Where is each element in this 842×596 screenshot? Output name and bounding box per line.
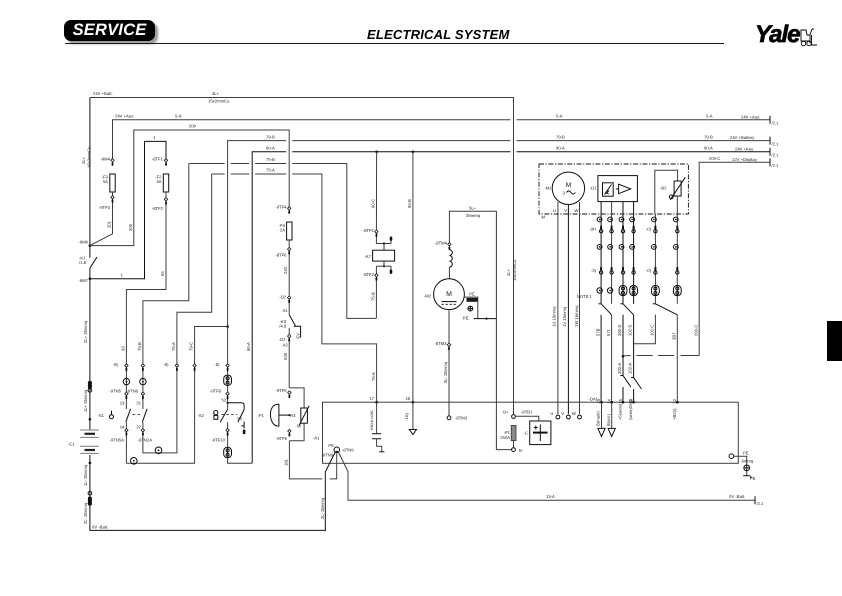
splice marker -8TM4	[448, 243, 451, 246]
wire M2 to controller 3L-	[448, 310, 450, 416]
svg-text:-B2: -B2	[660, 186, 667, 191]
svg-text:12V +Display: 12V +Display	[732, 157, 758, 162]
svg-text:W: W	[297, 424, 301, 429]
connector pair S2 upper	[224, 375, 232, 385]
svg-text:14: 14	[606, 398, 611, 403]
svg-text:U: U	[550, 411, 553, 416]
micro contactor 75-A stub	[376, 402, 378, 433]
svg-text:24V +Batt.: 24V +Batt.	[93, 91, 113, 96]
motor M1 leads	[557, 202, 559, 414]
svg-text:-6M7: -6M7	[78, 278, 88, 283]
svg-text:1W 16mmq: 1W 16mmq	[574, 305, 579, 327]
svg-text:M: M	[542, 215, 546, 220]
junction dot 79-B branch	[226, 325, 229, 328]
svg-text:90-A: 90-A	[266, 146, 275, 151]
splice marker b	[141, 392, 144, 395]
splice marker -8TF1	[164, 159, 167, 162]
svg-text:6mmq: 6mmq	[467, 299, 476, 303]
svg-text:2L- 35mmq: 2L- 35mmq	[83, 502, 88, 524]
inductor choke	[449, 250, 452, 267]
splice marker a	[125, 392, 128, 395]
svg-text:54: 54	[237, 416, 242, 421]
svg-text:3: 3	[563, 191, 566, 196]
svg-text:/2.1: /2.1	[772, 163, 780, 168]
terminal circle B-	[513, 441, 515, 448]
fuse F4 2A	[287, 222, 292, 240]
svg-text:-8): -8)	[113, 362, 119, 367]
svg-text:21: 21	[136, 401, 141, 406]
svg-text:200-S: 200-S	[617, 325, 622, 336]
connector pin row4 col4	[633, 267, 635, 270]
wire 90-A bus 24V +Key	[252, 152, 286, 464]
svg-text:/2.1: /2.1	[757, 501, 765, 506]
wire choke to M2	[448, 267, 450, 279]
wire 90-B to K7	[376, 152, 391, 244]
splice marker S2col	[226, 364, 229, 367]
svg-text:W: W	[575, 208, 579, 213]
controller D1	[598, 176, 638, 202]
motor M1	[552, 172, 584, 204]
black side tab	[827, 321, 842, 362]
svg-text:-8): -8)	[163, 362, 169, 367]
svg-text:18: 18	[405, 396, 410, 401]
wire below K1	[89, 268, 91, 430]
connector circle row1 col6	[673, 217, 678, 222]
wire P1 junction	[288, 414, 290, 416]
svg-text:NOTE 1: NOTE 1	[577, 294, 593, 299]
connector circle row1 col1	[597, 217, 602, 222]
connector pair row5 col6	[673, 286, 681, 296]
svg-text:-P1: -P1	[257, 413, 264, 418]
svg-text:5-A: 5-A	[175, 113, 182, 118]
svg-text:4L+: 4L+	[506, 268, 511, 276]
svg-text:-8): -8)	[214, 362, 220, 367]
splice marker -9TN2A	[141, 429, 144, 432]
svg-text:0V -Batt.: 0V -Batt.	[92, 525, 108, 530]
wire node 1	[90, 141, 166, 278]
wire 79-B bus 24V +Battery	[228, 141, 287, 327]
switch contact pair cols5-6	[653, 303, 656, 305]
svg-text:13-A: 13-A	[546, 494, 555, 499]
svg-text:90-C: 90-C	[370, 199, 375, 208]
svg-text:79-B: 79-B	[704, 134, 713, 139]
svg-text:-9TN5A: -9TN5A	[110, 438, 125, 443]
splice marker -8TF2	[164, 198, 167, 201]
svg-text:PE: PE	[328, 443, 334, 448]
svg-text:/2.1: /2.1	[772, 141, 780, 146]
svg-text:57B: 57B	[595, 328, 600, 336]
wire 4L+ bus 24V +Batt.	[90, 98, 514, 415]
traction motor unit dashed box	[539, 164, 688, 214]
splice marker -9TF5	[288, 391, 291, 394]
wire 200-S / 200-A	[622, 315, 624, 376]
svg-text:/2.1: /2.1	[772, 121, 780, 126]
terminal circle PE box right	[729, 454, 734, 459]
svg-text:1L+ 35mmq: 1L+ 35mmq	[83, 389, 88, 412]
svg-text:-D2: -D2	[279, 337, 286, 342]
svg-text:1L- 35mmq: 1L- 35mmq	[83, 464, 88, 486]
svg-text:17: 17	[369, 396, 374, 401]
svg-text:-3): -3)	[591, 268, 597, 273]
svg-text:B-: B-	[519, 448, 524, 453]
svg-text:-C1: -C1	[68, 442, 75, 447]
svg-text:528: 528	[283, 352, 288, 360]
svg-text:200-C: 200-C	[709, 156, 720, 161]
svg-text:-D2: -D2	[279, 295, 286, 300]
svg-text:75-B: 75-B	[370, 292, 375, 301]
svg-text:-9TF3: -9TF3	[99, 205, 111, 210]
splice marker -9TF6	[288, 429, 291, 432]
junction battery bottom	[89, 462, 92, 465]
svg-text:15: 15	[618, 398, 623, 403]
junction node 6M7	[89, 277, 92, 280]
svg-text:-9TN9: -9TN9	[321, 452, 333, 457]
wire 2L- to battery	[325, 452, 335, 530]
S2 contact blade 2	[238, 410, 244, 423]
wire battery minus	[90, 455, 326, 530]
motor M2	[434, 279, 465, 310]
svg-text:PE: PE	[750, 476, 756, 481]
svg-text:-8TF2: -8TF2	[363, 272, 375, 277]
svg-text:4L+: 4L+	[212, 91, 220, 96]
svg-text:-0): -0)	[646, 227, 652, 232]
wire F2 down staircase 65/33	[126, 192, 166, 409]
connector pair row5 col3	[619, 286, 627, 296]
svg-text:200-A: 200-A	[617, 363, 622, 374]
svg-text:5-A: 5-A	[706, 113, 713, 118]
svg-text:-M1: -M1	[544, 186, 552, 191]
svg-text:-9TF4: -9TF4	[275, 205, 287, 210]
svg-text:-9TF8: -9TF8	[210, 388, 222, 393]
svg-text:200-C: 200-C	[693, 325, 698, 336]
connector pin row4 col6	[676, 267, 678, 270]
svg-text:U: U	[553, 208, 556, 213]
svg-text:65: 65	[160, 271, 165, 276]
connector circle row3 col1	[597, 245, 602, 250]
svg-text:4L+: 4L+	[81, 156, 86, 164]
S2 contact blade 1	[220, 410, 227, 423]
svg-text:5L+: 5L+	[469, 205, 477, 210]
splice marker col75B	[141, 364, 144, 367]
connector pair S2 lower	[224, 447, 232, 457]
wire 75-B bus	[189, 163, 225, 165]
plug arrow 57B	[601, 402, 603, 428]
splice marker -9TN5A	[125, 429, 128, 432]
wire 57B	[600, 315, 602, 402]
splice marker s2	[226, 392, 229, 395]
contactor K1 main contact	[90, 257, 97, 268]
svg-text:5A: 5A	[103, 179, 108, 184]
svg-text:-6M6: -6M6	[78, 240, 88, 245]
wire F3 to 6M6	[90, 192, 113, 246]
fuse link battery plus	[88, 381, 92, 389]
svg-text:-8TF1: -8TF1	[363, 228, 375, 233]
splice marker -9TF3	[111, 196, 114, 199]
Yale forklift icon	[798, 27, 818, 49]
fuse F3 5A	[110, 174, 115, 192]
svg-text:/4.8: /4.8	[279, 324, 287, 329]
wire S1 lower	[125, 422, 127, 463]
wire 200 bus	[90, 130, 289, 246]
connector pin row2 col3	[622, 226, 624, 229]
splice marker col33	[125, 364, 128, 367]
connector pin row2 col6	[676, 226, 678, 229]
svg-text:24V +Battery: 24V +Battery	[730, 135, 755, 140]
svg-text:-8TF6: -8TF6	[275, 253, 287, 258]
splice marker -8TF10	[226, 429, 229, 432]
switch contact pair cols1-2	[599, 303, 602, 305]
svg-text:3L- 35mmq: 3L- 35mmq	[443, 361, 448, 383]
svg-text:R3: R3	[290, 413, 296, 418]
svg-text:-8TF1: -8TF1	[152, 157, 164, 162]
thermistor B2 frame	[655, 170, 678, 214]
svg-text:90-B: 90-B	[407, 199, 412, 208]
wire 5-A bus 24V +Aux.	[113, 120, 511, 162]
splice marker -8TF6	[288, 247, 291, 250]
wire 3B7	[676, 315, 678, 402]
junction node 6M6	[89, 244, 92, 247]
svg-text:-S1: -S1	[97, 413, 104, 418]
svg-text:-3H: -3H	[589, 227, 596, 232]
svg-text:200: 200	[128, 223, 133, 231]
wire battery positive main line	[89, 98, 91, 258]
svg-text:M: M	[446, 291, 452, 298]
svg-text:15x2mmCu: 15x2mmCu	[512, 259, 517, 281]
svg-text:micro cont.: micro cont.	[369, 410, 374, 430]
svg-text:2L- 35mmq: 2L- 35mmq	[320, 497, 325, 519]
solenoid EV bracket	[294, 326, 301, 337]
sheet ref 200-C /2.1	[769, 158, 771, 166]
connector circle row1 col3	[619, 217, 624, 222]
svg-text:102-A: 102-A	[628, 363, 633, 374]
splice marker -9M4	[111, 159, 114, 162]
connector pin row2 col5	[654, 226, 656, 229]
svg-text:A1: A1	[283, 308, 289, 313]
svg-text:201: 201	[107, 220, 112, 228]
svg-text:90-A: 90-A	[704, 146, 713, 151]
wire D1 pins down	[600, 202, 602, 304]
svg-text:33: 33	[120, 346, 125, 351]
variable resistor R3 loop	[289, 388, 304, 408]
svg-text:-D1: -D1	[590, 186, 597, 191]
svg-text:-8TB1: -8TB1	[521, 410, 533, 415]
svg-text:V: V	[564, 208, 567, 213]
terminal circle B+	[512, 415, 516, 419]
connector circle row5 col1	[597, 288, 602, 293]
svg-text:75-A: 75-A	[266, 168, 275, 173]
svg-text:B+: B+	[503, 410, 509, 415]
svg-text:75-A: 75-A	[371, 372, 376, 381]
svg-text:181: 181	[283, 458, 288, 466]
svg-text:M: M	[566, 182, 571, 189]
svg-text:24V +Aux.: 24V +Aux.	[115, 113, 134, 118]
earth symbol box right	[744, 465, 750, 471]
svg-text:12: 12	[672, 398, 677, 403]
connector circle row3 col6	[673, 245, 678, 250]
connector circle row3 col2	[608, 245, 613, 250]
header rule	[65, 43, 724, 45]
connector pin row4 col5	[654, 267, 656, 270]
svg-text:3A: 3A	[156, 179, 161, 184]
connector pair row5 col4	[630, 286, 638, 296]
svg-text:-9TN2A: -9TN2A	[138, 438, 153, 443]
connector circle row1 col2	[608, 217, 613, 222]
svg-text:1: 1	[153, 135, 156, 140]
svg-text:-8TM3: -8TM3	[434, 341, 447, 346]
svg-text:-9TN5: -9TN5	[109, 388, 121, 393]
terminal circle M2	[447, 416, 451, 420]
connector circle row3 col3	[619, 245, 624, 250]
svg-text:75-B: 75-B	[137, 342, 142, 351]
svg-text:35mmq: 35mmq	[466, 213, 481, 218]
wire 13-A 0V	[338, 452, 755, 500]
svg-text:-9TF6: -9TF6	[276, 436, 288, 441]
svg-text:V: V	[561, 411, 564, 416]
wire 571	[611, 315, 613, 402]
thermistor B2	[674, 181, 681, 196]
svg-text:B(sol.): B(sol.)	[606, 413, 611, 426]
sheet ref 90-A /2.1	[769, 148, 771, 156]
plug arrow 90-C	[412, 402, 414, 429]
fuse F2 3A	[163, 174, 168, 192]
connector pin row4 col1	[600, 267, 602, 270]
header title	[367, 27, 510, 42]
svg-text:-K7: -K7	[364, 254, 371, 259]
svg-text:1V 16mmq: 1V 16mmq	[562, 306, 567, 327]
svg-text:571: 571	[606, 328, 611, 336]
svg-text:-9TF10: -9TF10	[212, 438, 226, 443]
Yale logo	[755, 21, 799, 49]
svg-text:1: 1	[121, 272, 124, 277]
svg-text:-S2: -S2	[197, 413, 204, 418]
svg-text:3B7: 3B7	[671, 332, 676, 340]
splice marker -8TF1k	[375, 230, 378, 233]
svg-text:(sens)GND: (sens)GND	[628, 399, 633, 420]
D1 amp glyph	[619, 184, 631, 194]
junction dot 90-A to 90-B	[375, 151, 378, 154]
svg-text:79-C: 79-C	[189, 342, 194, 351]
svg-text:+5(sens): +5(sens)	[617, 403, 622, 420]
splice marker col75A	[175, 364, 178, 367]
switch contact 200	[620, 375, 623, 377]
svg-text:-1A): -1A)	[404, 412, 409, 421]
connector circle 75-B	[140, 378, 146, 384]
svg-text:PE: PE	[463, 316, 469, 321]
svg-text:-8TM3: -8TM3	[455, 416, 468, 421]
svg-text:1U 16mmq: 1U 16mmq	[552, 306, 557, 327]
connector pin row2 col2	[611, 226, 613, 229]
svg-text:79-B: 79-B	[556, 134, 565, 139]
connector circle node 8	[155, 447, 162, 454]
svg-text:13: 13	[120, 401, 125, 406]
svg-text:24V +Aux.: 24V +Aux.	[741, 114, 760, 119]
svg-text:79-B: 79-B	[266, 134, 275, 139]
svg-text:15x2mmCu: 15x2mmCu	[208, 99, 230, 104]
splice marker -8TM3	[447, 343, 450, 346]
svg-text:-9TN6: -9TN6	[126, 388, 138, 393]
svg-text:75-B: 75-B	[266, 157, 275, 162]
connector pin row4 col2	[611, 267, 613, 270]
earth wire box right	[734, 456, 747, 465]
svg-text:5-A: 5-A	[556, 113, 563, 118]
svg-text:22: 22	[136, 425, 141, 430]
svg-text:PE: PE	[469, 291, 475, 296]
svg-text:90-A: 90-A	[556, 146, 565, 151]
sheet ref 79-B /2.1	[769, 137, 771, 145]
svg-text:6mmq: 6mmq	[742, 459, 754, 464]
capacitor box C	[530, 421, 551, 445]
switch contact pair cols3-4	[620, 303, 623, 305]
svg-text:+B2(t): +B2(t)	[672, 408, 677, 420]
connector circle row5 col2	[607, 288, 612, 293]
svg-text:B(main): B(main)	[596, 411, 601, 426]
wire B+ to capacitor	[516, 416, 539, 421]
svg-text:15x2mmCu: 15x2mmCu	[87, 146, 92, 168]
terminal circles U V W	[556, 415, 560, 419]
switch contact 102	[631, 377, 634, 379]
svg-text:EV: EV	[295, 333, 300, 339]
wire 90-C down	[412, 152, 414, 402]
junction dot 200	[622, 355, 625, 358]
wire 200-C bus 12V +Display	[699, 162, 770, 355]
sheet ref 5-A /2.1	[769, 116, 771, 124]
splice marker -D2	[288, 296, 291, 299]
svg-text:-C: -C	[524, 430, 528, 435]
svg-text:-6TN9: -6TN9	[342, 448, 354, 453]
controller box A1	[323, 402, 739, 463]
svg-text:PE: PE	[743, 450, 749, 455]
svg-text:-0): -0)	[646, 268, 652, 273]
svg-text:2L+ 35mmq: 2L+ 35mmq	[83, 320, 88, 343]
svg-text:W: W	[572, 411, 576, 416]
svg-text:90-A: 90-A	[246, 342, 251, 351]
wire S2 lower	[228, 422, 253, 463]
fuse link battery minus	[88, 491, 92, 495]
connector circle node 11	[131, 458, 138, 465]
junction dot 90-A to 90-C	[412, 151, 415, 154]
connector circle row1 col5	[652, 217, 657, 222]
splice marker -D2b	[288, 334, 291, 337]
svg-text:240: 240	[283, 266, 288, 274]
svg-text:13: 13	[596, 398, 601, 403]
splice marker -8TF2k	[375, 274, 378, 277]
junction dots on box bus	[375, 401, 378, 404]
svg-text:2A: 2A	[280, 228, 285, 233]
wire 102-C	[634, 315, 656, 344]
svg-text:53: 53	[221, 398, 226, 403]
svg-text:-9TF5: -9TF5	[275, 388, 287, 393]
header service badge	[64, 20, 155, 42]
junction battery top	[89, 418, 92, 421]
plug arrow 571	[611, 402, 613, 428]
connector pin row4 col3	[622, 267, 624, 270]
wire F4 down	[288, 240, 290, 315]
svg-text:102-S: 102-S	[628, 325, 633, 336]
svg-text:-A1: -A1	[313, 436, 320, 441]
junction dot K7 top	[383, 242, 385, 244]
svg-text:/2.1: /2.1	[772, 153, 780, 158]
D1 igbt glyph	[603, 183, 614, 196]
wire 33 to 79-C link	[126, 327, 227, 464]
wire B2 pins down	[654, 214, 656, 304]
connector circle row3 col4	[630, 245, 635, 250]
connector pin row2 col1	[600, 226, 602, 229]
svg-text:-8TM4: -8TM4	[435, 241, 448, 246]
wire 75-A bus	[212, 173, 225, 175]
S2 NO branch loop	[228, 403, 245, 410]
earth wire M2 PE	[464, 297, 478, 319]
wire K3 to P1	[288, 328, 290, 388]
